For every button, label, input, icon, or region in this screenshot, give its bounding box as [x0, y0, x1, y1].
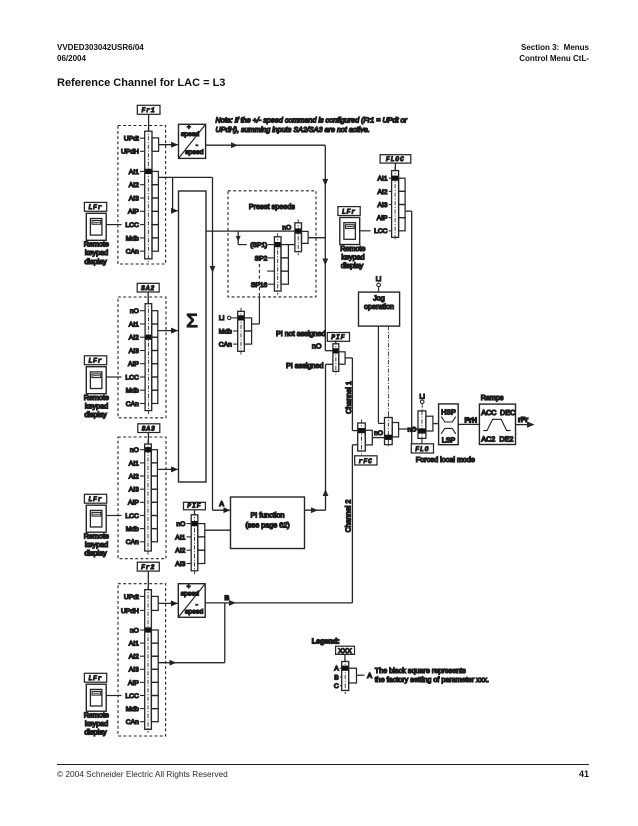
output comb cells SA3 — [151, 450, 157, 542]
svg-text:speed: speed — [185, 149, 204, 156]
selector bar LI control — [238, 308, 245, 355]
Ramps box — [479, 404, 515, 444]
svg-text:speed: speed — [185, 609, 204, 616]
svg-text:nO: nO — [282, 224, 291, 231]
caption Remote keypad display (Fr1) — [84, 240, 109, 266]
caption Remote keypad display (SA2) — [84, 393, 109, 419]
svg-text:AC2: AC2 — [481, 434, 495, 443]
factory setting black square SP1 — [275, 242, 281, 247]
factory setting black square legend A — [342, 666, 348, 671]
svg-text:AI1: AI1 — [175, 534, 185, 541]
svg-text:+: + — [187, 583, 191, 590]
wire PI output to PI assigned — [305, 509, 326, 511]
factory setting black square LI — [238, 315, 244, 320]
selector bar jog — [385, 414, 393, 448]
output cell FLO — [426, 416, 433, 431]
svg-text:AI1: AI1 — [129, 169, 139, 176]
wire rFr output — [516, 424, 529, 426]
Jog operation box — [359, 292, 400, 326]
svg-text:AI2: AI2 — [129, 473, 139, 480]
input labels LI control — [219, 328, 238, 348]
wire speed box 1 output (top main line) — [206, 144, 326, 146]
legend explanation text — [375, 666, 489, 684]
input labels FLOC — [374, 176, 391, 236]
svg-text:Note: If the +/- speed command: Note: If the +/- speed command is config… — [216, 116, 408, 125]
svg-text:display: display — [84, 410, 107, 419]
jog LI input — [376, 276, 382, 292]
svg-text:Channel 2: Channel 2 — [343, 500, 352, 533]
output cell Fr2 UPdt/UPdH — [151, 596, 158, 610]
svg-text:CAn: CAn — [126, 249, 139, 256]
svg-text:rFr: rFr — [518, 415, 528, 424]
input labels Fr2 — [121, 594, 145, 726]
parameter label LFr label (FLOC) — [338, 207, 360, 216]
output comb cells LI control — [244, 318, 251, 344]
+/- speed box 1 — [179, 124, 206, 159]
wire Fr1 AI1 tap to A line — [159, 176, 213, 178]
wire PIF fb label to selector — [194, 510, 196, 515]
svg-text:display: display — [84, 728, 107, 737]
svg-text:FLO: FLO — [415, 446, 429, 453]
svg-text:PIF: PIF — [331, 334, 345, 341]
PI function box — [231, 497, 305, 549]
svg-text:nO: nO — [176, 521, 185, 528]
svg-text:UPdt: UPdt — [124, 136, 139, 143]
caption Remote keypad display (SA3) — [84, 532, 109, 558]
svg-text:LI: LI — [376, 276, 382, 283]
svg-text:AI3: AI3 — [129, 487, 139, 494]
svg-text:FrH: FrH — [465, 415, 477, 424]
parameter label LFr label (Fr2) — [84, 673, 106, 682]
footer page number — [489, 769, 589, 780]
wire FLO output to HSP/LSP — [433, 423, 439, 425]
svg-text:SA2: SA2 — [141, 285, 155, 292]
remote keypad display icon (FLOC) — [340, 218, 360, 245]
footer rule — [57, 764, 589, 765]
svg-text:LFr: LFr — [88, 675, 102, 682]
svg-text:Fr1: Fr1 — [142, 107, 156, 114]
svg-text:AI3: AI3 — [175, 561, 185, 568]
output cell rFC — [365, 430, 372, 445]
svg-text:A: A — [334, 666, 339, 673]
svg-text:AI2: AI2 — [129, 335, 139, 342]
svg-text:AI3: AI3 — [377, 202, 387, 209]
wire PIF label to selector — [335, 341, 337, 344]
svg-text:LI: LI — [419, 393, 425, 400]
parameter label LFr label (Fr1) — [84, 202, 106, 211]
preset speed selector SP rows — [250, 242, 274, 289]
output comb cells FLOC — [399, 178, 406, 231]
svg-text:LFr: LFr — [88, 204, 102, 211]
FLO LI input — [419, 393, 425, 411]
selector bar FLOC — [392, 167, 399, 241]
vertical ellipsis dashed (SP3..SP15) + control line from LI selector — [258, 264, 260, 297]
output comb cells SA2 — [152, 311, 158, 404]
wire Fr2 AI tap to B — [158, 662, 225, 664]
wire PI assigned input — [326, 363, 333, 365]
parameter label FLO — [411, 444, 433, 453]
svg-text:HSP: HSP — [441, 407, 456, 416]
wire sigma output to preset selector — [206, 230, 295, 232]
wire SA3 label to selector — [147, 433, 149, 445]
svg-text:LCC: LCC — [125, 374, 139, 381]
output comb cells Fr1 — [152, 171, 158, 251]
remote keypad display icon (Fr1) — [86, 213, 106, 240]
svg-text:display: display — [84, 257, 107, 266]
svg-text:LFr: LFr — [88, 358, 102, 365]
selector bar SA3 — [145, 441, 152, 555]
wire keypad5 to FLOC LCC — [361, 230, 371, 232]
output cell preset selector — [302, 231, 309, 243]
svg-text:Forced local mode: Forced local mode — [416, 455, 475, 464]
svg-text:A: A — [367, 671, 372, 680]
output cell jog selector — [392, 423, 398, 437]
dash-dot link jog box to jog selector — [387, 326, 389, 414]
wire channel 1 — [345, 357, 352, 359]
svg-text:Mdb: Mdb — [126, 388, 139, 395]
parameter label SA2 — [137, 283, 159, 292]
input labels SA2 — [125, 308, 145, 408]
svg-text:UPdH: UPdH — [121, 149, 139, 156]
factory setting black square jog nO — [385, 435, 392, 440]
svg-text:AI1: AI1 — [129, 460, 139, 467]
wire branch into sigma — [172, 177, 174, 210]
wire legend output — [357, 674, 365, 676]
svg-text:UPdt: UPdt — [124, 594, 139, 601]
svg-text:AI3: AI3 — [129, 348, 139, 355]
svg-text:LFr: LFr — [88, 496, 102, 503]
wire keypad3 to LCC — [106, 515, 121, 517]
parameter label PIF routing — [327, 333, 349, 342]
svg-text:LCC: LCC — [374, 228, 388, 235]
svg-text:LCC: LCC — [125, 693, 139, 700]
svg-text:UPdH: UPdH — [121, 608, 139, 615]
caption Remote keypad display (Fr2) — [84, 711, 109, 737]
svg-text:LCC: LCC — [125, 222, 139, 229]
svg-text:nO: nO — [130, 447, 139, 454]
svg-text:display: display — [341, 261, 364, 270]
svg-text:Legend:: Legend: — [312, 636, 340, 645]
wire B line to channel 2 — [205, 602, 352, 604]
factory setting black square PI routing nO — [333, 348, 338, 353]
svg-text:SA3: SA3 — [142, 425, 156, 432]
svg-text:Σ: Σ — [186, 310, 197, 331]
parameter label PIF feedback — [184, 502, 206, 510]
svg-text:C: C — [334, 683, 339, 690]
wire SP1 branch — [237, 231, 239, 245]
selector bar preset nO selector — [295, 219, 302, 255]
footer copyright — [57, 769, 228, 779]
svg-text:DEC: DEC — [500, 408, 515, 417]
parameter label rFC — [355, 456, 377, 465]
factory setting black square Fr1 = AI1 — [145, 169, 152, 174]
svg-text:AIP: AIP — [377, 215, 388, 222]
wire rFC output to jog selector — [372, 437, 384, 439]
wire jog selector to FLO selector — [399, 428, 418, 430]
svg-text:AI1: AI1 — [377, 176, 387, 183]
svg-text:(see page 62): (see page 62) — [245, 521, 289, 530]
wire FLOC output down to FLO — [405, 210, 412, 212]
selector bar SP preset — [274, 233, 281, 294]
svg-text:LSP: LSP — [442, 436, 456, 445]
parameter label LFr label (SA2) — [84, 356, 106, 365]
LI input circle — [219, 315, 238, 322]
svg-text:CAn: CAn — [126, 401, 139, 408]
svg-text:+: + — [187, 124, 191, 131]
svg-text:speed: speed — [181, 131, 200, 138]
svg-text:AIP: AIP — [128, 680, 139, 687]
wire keypad2 to LCC — [106, 376, 121, 378]
svg-text:AI3: AI3 — [129, 195, 139, 202]
input labels PIF feedback — [175, 521, 191, 568]
svg-text:AI1: AI1 — [129, 321, 139, 328]
svg-text:AI3: AI3 — [129, 667, 139, 674]
svg-text:AI2: AI2 — [129, 182, 139, 189]
svg-text:LCC: LCC — [125, 513, 139, 520]
svg-text:B: B — [334, 674, 339, 681]
factory setting black square SA2 = AI2 — [146, 335, 152, 340]
svg-text:LFr: LFr — [342, 208, 356, 215]
selector bar PI routing — [333, 340, 339, 375]
output comb cells PIF feedback — [198, 524, 205, 564]
dashed enclosure SA2 — [118, 297, 166, 418]
svg-text:Mdb: Mdb — [126, 235, 139, 242]
svg-text:UPdH), summing inputs SA2/SA3: UPdH), summing inputs SA2/SA3 are not ac… — [216, 125, 370, 134]
svg-text:Preset speeds: Preset speeds — [249, 202, 295, 211]
svg-text:nO: nO — [312, 341, 322, 350]
factory setting black square preset nO — [295, 229, 301, 234]
dashed enclosure SA3 — [118, 437, 166, 559]
wire keypad4 to LCC — [106, 695, 121, 697]
svg-text:PI not assigned: PI not assigned — [276, 329, 326, 338]
svg-text:speed: speed — [181, 590, 200, 597]
factory setting black square PIF nO — [192, 521, 198, 526]
wire preset output to main line — [308, 237, 325, 239]
svg-text:B: B — [225, 595, 230, 602]
output cell Fr1 UPdt/UPdH — [152, 138, 159, 151]
output comb cells Fr2 — [151, 630, 158, 722]
factory setting black square FLOC AI1 — [392, 176, 398, 181]
selector bar FLO — [418, 411, 426, 439]
svg-text:PI function: PI function — [251, 511, 285, 520]
svg-text:The black square represents: The black square represents — [375, 666, 466, 675]
svg-text:nO: nO — [130, 308, 139, 315]
remote keypad display icon (SA2) — [86, 367, 106, 394]
parameter label LFr label (SA3) — [84, 494, 106, 503]
selector bar Fr2 — [145, 586, 152, 733]
dash-dot below FLO bar to label — [421, 438, 423, 443]
summing box sigma — [179, 191, 207, 482]
svg-text:AIP: AIP — [128, 361, 139, 368]
svg-text:AIP: AIP — [128, 209, 139, 216]
svg-text:XXX: XXX — [338, 648, 352, 655]
svg-text:CAn: CAn — [126, 539, 139, 546]
note text about +/- speed — [216, 116, 408, 134]
svg-text:CAn: CAn — [126, 719, 139, 726]
output comb cells SP selector — [281, 245, 288, 285]
selector bar Fr1 — [145, 128, 152, 263]
wire Fr1 UPdt cell to speed box — [159, 144, 178, 146]
svg-text:FLOC: FLOC — [386, 156, 405, 163]
svg-text:Fr2: Fr2 — [141, 564, 155, 571]
parameter label SA3 — [138, 424, 160, 433]
wire Fr1 label to selector — [148, 114, 150, 131]
factory setting black square SA3 = nO — [145, 447, 151, 452]
svg-text:nO: nO — [374, 430, 383, 437]
svg-text:AI2: AI2 — [129, 654, 139, 661]
svg-text:AI2: AI2 — [175, 548, 185, 555]
svg-text:-: - — [196, 142, 198, 149]
svg-text:AI2: AI2 — [377, 189, 387, 196]
wire PIF feedback to PI box — [205, 529, 231, 531]
svg-text:(SP1): (SP1) — [250, 242, 267, 249]
svg-text:CAn: CAn — [219, 342, 232, 349]
svg-text:LI: LI — [219, 315, 225, 322]
dashed enclosure Preset speeds — [228, 191, 316, 297]
wire Fr2 label to selector — [147, 571, 149, 590]
factory setting black square rFC ch1 — [358, 428, 365, 433]
svg-text:Channel 1: Channel 1 — [344, 381, 353, 414]
input labels legend — [334, 666, 342, 691]
selector bar SA2 — [145, 300, 152, 414]
wire Fr2 UPdt cell to speed box 2 — [158, 602, 177, 604]
wire jog box to jog selector input — [377, 326, 379, 423]
svg-text:Mdb: Mdb — [219, 328, 232, 335]
svg-text:DE2: DE2 — [499, 434, 513, 443]
svg-text:PIF: PIF — [187, 503, 201, 510]
dashed enclosure Fr1 — [118, 126, 166, 265]
input labels Fr1 — [121, 136, 145, 256]
wire keypad1 to LCC — [106, 224, 121, 226]
svg-text:Mdb: Mdb — [126, 526, 139, 533]
svg-text:operation: operation — [364, 302, 394, 311]
parameter label Fr2 — [137, 562, 159, 571]
page title — [57, 78, 225, 89]
HSP/LSP limit box — [439, 404, 459, 445]
svg-text:A: A — [219, 501, 224, 508]
svg-text:AIP: AIP — [128, 500, 139, 507]
wire SA2 output to sigma — [158, 330, 178, 332]
remote keypad display icon (SA3) — [86, 505, 106, 532]
output cell PI routing — [339, 352, 345, 364]
+/- speed box 2 — [178, 583, 205, 617]
svg-text:rFC: rFC — [359, 458, 373, 465]
svg-text:the factory setting of paramet: the factory setting of parameter xxx. — [375, 675, 489, 684]
svg-text:nO: nO — [407, 426, 416, 433]
output comb cells legend — [349, 668, 357, 683]
svg-text:-: - — [196, 602, 198, 609]
document header left — [57, 42, 144, 65]
selector bar PIF feedback — [191, 511, 198, 574]
wire SA2 label to selector — [147, 292, 149, 304]
svg-text:Mdb: Mdb — [126, 706, 139, 713]
svg-text:nO: nO — [130, 627, 139, 634]
factory setting black square Fr2 = nO — [145, 627, 151, 632]
svg-text:PI assigned: PI assigned — [286, 361, 324, 370]
wire SP comb to preset nO selector — [288, 244, 295, 246]
svg-text:ACC: ACC — [481, 408, 496, 417]
selector bar rFC — [358, 420, 366, 455]
wire FLOC label to selector — [394, 163, 396, 171]
legend XXX parameter box — [336, 646, 355, 655]
input labels SA3 — [125, 447, 144, 546]
caption Remote keypad display (FLOC) — [340, 244, 365, 270]
wire SA3 output to sigma — [157, 468, 177, 470]
remote keypad display icon (Fr2) — [86, 684, 106, 711]
factory setting black square FLO nO — [418, 428, 425, 433]
parameter label FLOC — [380, 155, 411, 163]
dashed enclosure Fr2 — [118, 584, 166, 736]
parameter label Fr1 — [137, 105, 160, 114]
document header right — [389, 42, 589, 65]
selector bar legend — [342, 658, 349, 694]
svg-text:AI1: AI1 — [129, 641, 139, 648]
svg-text:SP2: SP2 — [255, 255, 268, 262]
svg-text:Ramps: Ramps — [481, 393, 504, 402]
svg-text:display: display — [84, 549, 107, 558]
wire HSP to Ramps — [458, 423, 479, 425]
wire XXX to legend selector — [344, 654, 346, 661]
